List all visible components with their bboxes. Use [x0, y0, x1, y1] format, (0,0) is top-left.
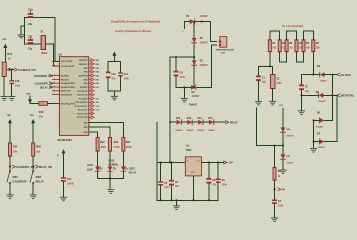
wire neutral rail	[302, 94, 319, 96]
wire D1 to connector pin 1	[195, 22, 217, 42]
node junction (SW1 net)	[9, 166, 11, 168]
svg-text:100n: 100n	[164, 187, 170, 189]
pin RA3 stub	[52, 86, 59, 88]
ground (oscillator)	[18, 35, 25, 38]
wire decoupling top rail	[108, 61, 120, 63]
wire D10 to D11	[282, 132, 284, 154]
node junction (pot wiper)	[11, 69, 13, 71]
svg-text:10u: 10u	[262, 82, 267, 84]
wire rail to ground	[109, 179, 111, 190]
node junction (input/C6)	[160, 162, 162, 164]
svg-text:R17: R17	[13, 145, 18, 148]
LED LED2	[108, 161, 119, 172]
node junction (rail/reg gnd)	[193, 199, 195, 201]
wire bottom ground rail	[157, 199, 218, 201]
wire stray stub up	[255, 108, 257, 146]
wire top rail	[25, 17, 55, 19]
svg-text:47u: 47u	[111, 78, 116, 81]
wire D3 to bottom node	[193, 65, 195, 87]
pin OSC1 stub	[52, 60, 59, 62]
resistor R6	[312, 40, 321, 52]
ground (C2)	[270, 101, 276, 105]
wire left drop to ground rail	[156, 122, 158, 200]
capacitor C4	[174, 71, 186, 79]
wire sense top	[282, 109, 284, 128]
wire C4 branch bottom	[176, 76, 191, 87]
node junction (neutral tap)	[301, 94, 303, 96]
capacitor C3	[169, 163, 180, 201]
wire tap to R9	[274, 146, 276, 168]
diode D1	[187, 15, 209, 24]
svg-text:VDD: VDD	[26, 93, 31, 95]
svg-text:U2: U2	[59, 53, 63, 57]
svg-text:D12: D12	[176, 118, 181, 120]
wire filter cluster rail	[259, 65, 273, 67]
wire C15 bottom to ground	[11, 84, 13, 96]
wire D8 to CLOCK terminal	[325, 74, 337, 76]
wire decoupling ground stub	[113, 91, 115, 96]
wire D13-D14	[192, 121, 198, 123]
wire R20 to LED3	[122, 151, 124, 166]
svg-text:LED3: LED3	[129, 168, 136, 170]
wire RB0 to R22 column	[89, 132, 98, 137]
node junction (input/main feed)	[169, 162, 171, 164]
svg-text:100u: 100u	[180, 76, 186, 79]
wire R1 bottom to filter cluster	[269, 52, 271, 67]
svg-text:470R: 470R	[100, 146, 106, 149]
svg-text:10u: 10u	[305, 91, 310, 93]
svg-text:NORMAL: NORMAL	[108, 164, 119, 167]
svg-text:7: 7	[54, 93, 55, 95]
resistor R1	[268, 40, 277, 52]
label DELAY_SW at RA3	[40, 86, 53, 90]
pin OSC2 stub	[52, 65, 59, 67]
capacitor C8	[206, 163, 217, 201]
wire LED2 to rail	[109, 171, 111, 178]
svg-text:D14: D14	[198, 117, 203, 120]
label NEUTRAL net arrow	[337, 94, 355, 98]
wire D12-D13	[181, 121, 187, 123]
capacitor C12	[61, 177, 75, 185]
ground (SW1)	[7, 195, 13, 199]
svg-text:RELAY: RELAY	[230, 121, 238, 124]
diode D2	[191, 85, 200, 98]
capacitor C14	[118, 62, 129, 92]
label CALIBRATE_POT net arrow	[15, 68, 37, 72]
label DELAY_SW net arrow	[36, 165, 53, 169]
wire sense tap rail	[256, 145, 283, 147]
ground (C15)	[9, 97, 15, 101]
svg-text:RC1/T1OSI: RC1/T1OSI	[78, 113, 88, 115]
svg-text:R20: R20	[126, 141, 131, 144]
node junction (ground tap)	[183, 87, 185, 89]
diode D3	[192, 60, 209, 67]
ground (C5)	[271, 218, 277, 222]
svg-text:1N4007: 1N4007	[318, 146, 326, 149]
svg-text:RC3/SCK/SCL: RC3/SCK/SCL	[75, 106, 89, 108]
wire R6 bottom to live wire	[312, 52, 314, 75]
svg-text:RB6: RB6	[96, 64, 100, 66]
label +5V net arrow	[224, 161, 234, 165]
svg-text:SDI: SDI	[96, 102, 99, 104]
svg-text:1N4007: 1N4007	[175, 129, 183, 132]
svg-text:C12: C12	[67, 178, 72, 181]
MCU left pin names	[61, 61, 77, 105]
svg-text:OSC2/CLKOUT: OSC2/CLKOUT	[61, 66, 76, 68]
wire R18 to SW2	[32, 156, 34, 170]
diode D11	[281, 154, 295, 164]
node junction (D1 top rail)	[201, 21, 203, 23]
svg-text:RC7/RX/DT: RC7/RX/DT	[77, 91, 88, 93]
diode D10	[281, 127, 295, 137]
wire bottom rail left	[25, 43, 41, 45]
ground (pot)	[1, 97, 7, 101]
node junction (C4 tap)	[175, 56, 177, 58]
svg-text:R22: R22	[100, 141, 105, 144]
svg-text:RB4: RB4	[96, 71, 100, 74]
svg-text:1N4007: 1N4007	[318, 100, 326, 103]
wire stub left of D1	[184, 22, 186, 29]
wire bottom bend R4-R5	[297, 52, 304, 62]
capacitor C2	[270, 66, 282, 101]
wire connector pin 2	[197, 45, 217, 88]
svg-text:RA3/AN3/VREF+: RA3/AN3/VREF+	[61, 86, 77, 89]
svg-text:RC0/T1OSO: RC0/T1OSO	[77, 117, 88, 119]
svg-text:SD0: SD0	[96, 98, 100, 100]
MCU right pin names	[75, 60, 89, 134]
capacitor C13	[106, 62, 116, 92]
svg-text:100n: 100n	[278, 205, 284, 207]
svg-text:*R1 - 8 are 10 Kohm(rated): *R1 - 8 are 10 Kohm(rated)	[282, 25, 303, 28]
wire RB1 to R21 column	[89, 127, 110, 138]
wire D11 to ground	[282, 159, 284, 169]
LED LED3	[121, 167, 137, 175]
svg-text:1N4007: 1N4007	[316, 126, 324, 129]
svg-text:DELAY: DELAY	[129, 171, 137, 174]
svg-text:10k: 10k	[39, 116, 44, 119]
diode D14	[197, 117, 205, 132]
svg-text:MCLR/Vpp/THV: MCLR/Vpp/THV	[61, 103, 76, 105]
svg-text:RC2/CCP1: RC2/CCP1	[78, 110, 89, 112]
capacitor C11	[28, 36, 33, 51]
diode D13	[186, 118, 194, 132]
node junction (LED rail)	[109, 178, 111, 180]
svg-text:RB0/INT: RB0/INT	[80, 87, 88, 89]
svg-text:RV1: RV1	[7, 53, 12, 56]
resistor R9	[273, 168, 281, 181]
wire left vertical	[24, 18, 26, 44]
capacitor C9	[216, 163, 228, 201]
svg-text:VR: VR	[281, 190, 285, 192]
wire D9 to NEUTRAL terminal	[323, 94, 336, 96]
svg-text:SW1: SW1	[12, 176, 18, 179]
svg-text:1N4007: 1N4007	[189, 103, 198, 106]
pin RA0 stub	[52, 75, 59, 77]
svg-text:7805: 7805	[186, 149, 192, 152]
node junction (R9 tap)	[274, 145, 276, 147]
capacitor C6	[158, 163, 170, 201]
svg-text:1N4007: 1N4007	[200, 64, 209, 67]
wire R22 to LED1	[97, 151, 99, 166]
wire D7 left end to ground	[314, 142, 320, 148]
svg-text:RA1/AN1: RA1/AN1	[61, 78, 70, 81]
svg-text:1N4007: 1N4007	[286, 162, 294, 165]
svg-text:22p: 22p	[28, 48, 33, 51]
label CLOCK net arrow	[337, 73, 351, 77]
svg-text:RB7: RB7	[96, 60, 100, 62]
node junction (output/C9)	[217, 162, 219, 164]
ground (C12)	[60, 197, 66, 201]
power flag VDD (SW1 pullup)	[7, 115, 12, 143]
svg-text:RA2/AN2/VREF-: RA2/AN2/VREF-	[61, 82, 76, 85]
svg-text:RA4/T0CKI: RA4/T0CKI	[61, 90, 71, 93]
svg-text:Group(R1-R8), all resistances: Group(R1-R8), all resistances are 1/4 Wa…	[111, 20, 160, 24]
wire C5 to ground	[274, 204, 276, 218]
wire top rail (D1)	[185, 21, 190, 23]
svg-text:9: 9	[54, 60, 55, 62]
svg-text:100nF: 100nF	[67, 182, 74, 185]
pin RA5 stub	[52, 94, 59, 96]
ground (D7)	[310, 148, 316, 152]
svg-text:PIC16F876A: PIC16F876A	[58, 139, 73, 142]
voltage regulator U1 7805	[185, 145, 201, 176]
svg-text:D15: D15	[208, 118, 213, 120]
wire C4 branch top	[175, 57, 177, 71]
node junction (rail/C8)	[208, 199, 210, 201]
power flag VDD (MCLR)	[26, 93, 32, 103]
pin RA4 stub	[52, 90, 59, 92]
resistor R21	[109, 138, 120, 152]
pin MCLR stub	[52, 103, 59, 105]
wire ground stub	[21, 26, 25, 35]
svg-text:RB0: RB0	[84, 132, 88, 134]
wire ground stub at bridge bottom	[183, 87, 185, 98]
svg-text:+5V: +5V	[228, 162, 233, 165]
svg-text:LED2: LED2	[108, 161, 115, 163]
node junction (D7 left)	[313, 141, 315, 143]
svg-text:RB2: RB2	[84, 79, 88, 81]
wire ground drop from rail	[176, 200, 178, 205]
node junction (relay row tap)	[169, 121, 171, 123]
svg-text:CALIBRATE: CALIBRATE	[12, 181, 27, 184]
diode D6	[316, 112, 324, 128]
wire R17 to SW1	[9, 156, 11, 170]
ground (D11)	[280, 170, 286, 174]
power flag VDD (SW2 pullup)	[30, 115, 35, 143]
svg-text:VDD: VDD	[30, 115, 35, 117]
svg-text:NEUTRAL: NEUTRAL	[341, 94, 355, 98]
pin arrow RC1	[89, 112, 95, 115]
switch SW2	[30, 170, 44, 184]
wire RB2 to R20 column	[89, 123, 124, 138]
svg-text:RB2: RB2	[96, 79, 100, 81]
svg-text:RB7/PGD: RB7/PGD	[79, 60, 88, 62]
ground (regulator rail)	[173, 206, 179, 210]
diode D7	[317, 134, 326, 150]
svg-text:47u: 47u	[212, 183, 217, 186]
resistor R3	[285, 40, 294, 52]
wire main feed vertical	[169, 57, 171, 162]
wire D6 left end	[314, 119, 320, 121]
wire regulator output rail	[202, 162, 224, 164]
node junction (VR output)	[274, 188, 276, 190]
wire regulator ground pin	[192, 176, 194, 200]
node junction (neutral/down branch)	[332, 94, 334, 96]
svg-text:1N4007: 1N4007	[186, 129, 194, 132]
capacitor C15	[9, 80, 20, 87]
resistor R2	[278, 40, 287, 52]
svg-text:TRANSFORMER AUXILIARY: TRANSFORMER AUXILIARY	[216, 48, 235, 51]
svg-text:470R: 470R	[114, 146, 120, 149]
svg-text:RB3: RB3	[96, 76, 100, 78]
wire SW1 to ground	[9, 184, 11, 194]
ground (decoupling pair)	[111, 96, 117, 100]
svg-text:1N4007: 1N4007	[200, 15, 209, 18]
diode D12	[175, 118, 183, 132]
svg-text:47u: 47u	[175, 185, 180, 188]
svg-text:LOW: LOW	[87, 169, 93, 171]
svg-text:DELAY: DELAY	[36, 181, 45, 184]
svg-text:470u: 470u	[277, 82, 283, 85]
svg-text:VDD: VDD	[7, 115, 12, 117]
potentiometer RV1	[2, 53, 14, 77]
svg-text:C15: C15	[15, 80, 20, 83]
wire D5 to D3	[193, 43, 195, 60]
svg-text:Group(C?), all capacitances ar: Group(C?), all capacitances are 100n(rat…	[115, 29, 151, 33]
node junction (R6/live)	[312, 74, 314, 76]
wire top bend R3-R4	[287, 31, 297, 40]
MCU right pin arrows	[89, 59, 95, 111]
svg-text:RB3/PGM: RB3/PGM	[79, 76, 88, 78]
ground (C1)	[255, 101, 261, 105]
pin arrow RC0	[89, 116, 95, 119]
svg-text:RB1: RB1	[96, 83, 100, 85]
svg-text:1N4007: 1N4007	[197, 129, 205, 132]
ground (bridge)	[181, 98, 187, 102]
svg-text:10k: 10k	[13, 150, 18, 153]
label VR net arrow	[278, 188, 285, 192]
MCU right arrow net labels	[96, 60, 101, 112]
svg-text:D13: D13	[187, 118, 192, 120]
svg-text:RB2: RB2	[84, 123, 88, 125]
wire R19 to MCLR pin	[48, 103, 60, 105]
ground (C7)	[298, 111, 304, 115]
svg-text:DELAY_SW: DELAY_SW	[39, 166, 53, 169]
node junction (rail/ground drop)	[176, 199, 178, 201]
node junction (rail/C3)	[171, 199, 173, 201]
MCU left pin numbers	[53, 60, 55, 104]
svg-text:C14: C14	[124, 73, 129, 76]
svg-text:CLOCK: CLOCK	[341, 73, 351, 77]
wire R9 to C5	[274, 180, 276, 199]
resistor R22	[96, 138, 106, 152]
svg-text:RB5: RB5	[96, 68, 100, 70]
resistor R4	[295, 40, 304, 52]
wire doubler tap	[170, 56, 194, 58]
wire bottom rail right to OSC2	[46, 44, 60, 66]
node junction (live/down branch)	[332, 74, 334, 76]
diode D15	[208, 118, 216, 132]
power flag VDD (decoupling pair)	[112, 52, 116, 62]
svg-text:GND: GND	[191, 171, 196, 173]
connector J1 TRANSFORMER AUXILIARY	[216, 37, 235, 55]
wire SW2 to ground	[32, 184, 34, 194]
wire D6-D7 left bus	[313, 120, 315, 141]
wire doubler column	[193, 22, 195, 38]
crystal X1	[40, 31, 48, 55]
svg-text:1N4007: 1N4007	[208, 129, 216, 132]
resistor R18	[32, 143, 42, 156]
svg-text:100n: 100n	[222, 184, 228, 186]
svg-text:RA0/AN0: RA0/AN0	[61, 75, 69, 78]
diode D9	[316, 92, 327, 103]
wire relay row	[170, 121, 176, 123]
svg-text:100n: 100n	[124, 79, 130, 81]
LED LED1	[87, 165, 102, 171]
node junction (D6 left)	[313, 120, 315, 122]
capacitor C7	[299, 75, 309, 111]
node junction (SW2 net)	[32, 166, 34, 168]
wire LED cathode rail	[98, 171, 124, 178]
wire R21 to LED2	[109, 151, 111, 166]
pin RA1 stub	[52, 78, 59, 80]
node junction (sense mid)	[282, 145, 284, 147]
svg-text:4MHz: 4MHz	[41, 52, 48, 55]
svg-text:OSC1/CLKIN: OSC1/CLKIN	[61, 61, 73, 63]
wire C15 branch	[11, 70, 13, 81]
wire D14-D15	[203, 121, 209, 123]
svg-text:RC5/SDO: RC5/SDO	[79, 98, 88, 100]
power flag VDD (pot)	[2, 39, 7, 62]
resistor R20	[122, 138, 132, 152]
wire live rail	[302, 74, 320, 76]
svg-text:100n: 100n	[15, 85, 21, 88]
diode D5	[192, 38, 209, 45]
svg-text:1N4007: 1N4007	[200, 42, 209, 45]
svg-text:4: 4	[54, 81, 55, 84]
label RELAY net arrow	[226, 121, 239, 125]
wire top bend R5-R6	[304, 31, 314, 40]
svg-text:470R: 470R	[126, 146, 132, 149]
wire live down branch	[325, 75, 333, 121]
svg-text:1: 1	[54, 102, 55, 104]
wire bottom bend R2-R3	[280, 52, 287, 62]
label CALIBRATE_SW net arrow	[12, 165, 35, 169]
svg-text:CALIBRATE_SW: CALIBRATE_SW	[16, 166, 36, 169]
svg-text:6: 6	[54, 89, 55, 91]
svg-text:RB0: RB0	[96, 87, 100, 89]
svg-text:CALIBRATE_POT: CALIBRATE_POT	[18, 69, 36, 72]
pin RA2 stub	[52, 82, 59, 84]
svg-text:3: 3	[54, 78, 55, 80]
wire VDD to R19	[30, 103, 39, 105]
capacitor C10	[28, 9, 33, 26]
svg-text:22p: 22p	[28, 23, 33, 26]
svg-text:RA5/AN4/SS: RA5/AN4/SS	[61, 94, 73, 97]
capacitor C1	[256, 66, 266, 101]
node junction (rail/C6)	[160, 199, 162, 201]
label CALIBRATE_SW at RA2	[35, 82, 54, 86]
wire pot bottom to ground	[3, 77, 5, 97]
svg-text:LED1: LED1	[87, 165, 94, 167]
resistor R17	[9, 143, 19, 156]
wire decoupling bottom rail	[108, 90, 120, 92]
svg-text:SW2: SW2	[36, 176, 42, 179]
svg-text:RB6/PGC: RB6/PGC	[79, 64, 88, 66]
ground (SW2)	[30, 195, 36, 199]
capacitor C5	[272, 200, 284, 208]
wire neutral down branch	[325, 95, 337, 141]
